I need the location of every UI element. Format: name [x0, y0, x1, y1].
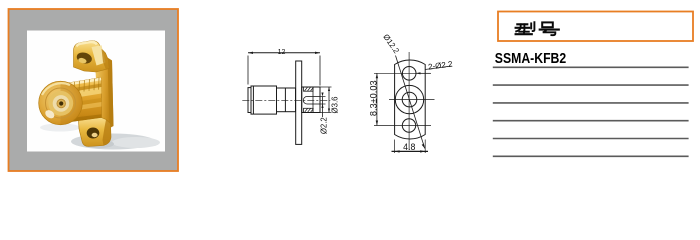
svg-text:12: 12	[278, 49, 286, 56]
svg-text:SSMA-KFB2: SSMA-KFB2	[495, 50, 566, 66]
svg-text:4.8: 4.8	[403, 142, 415, 152]
svg-text:Ø3.6: Ø3.6	[331, 97, 340, 114]
svg-text:Ø2.2: Ø2.2	[320, 117, 329, 134]
svg-text:Ø12.2: Ø12.2	[381, 32, 401, 55]
svg-text:2-Ø2.2: 2-Ø2.2	[428, 59, 454, 71]
svg-text:8.3±0.03: 8.3±0.03	[368, 80, 378, 116]
